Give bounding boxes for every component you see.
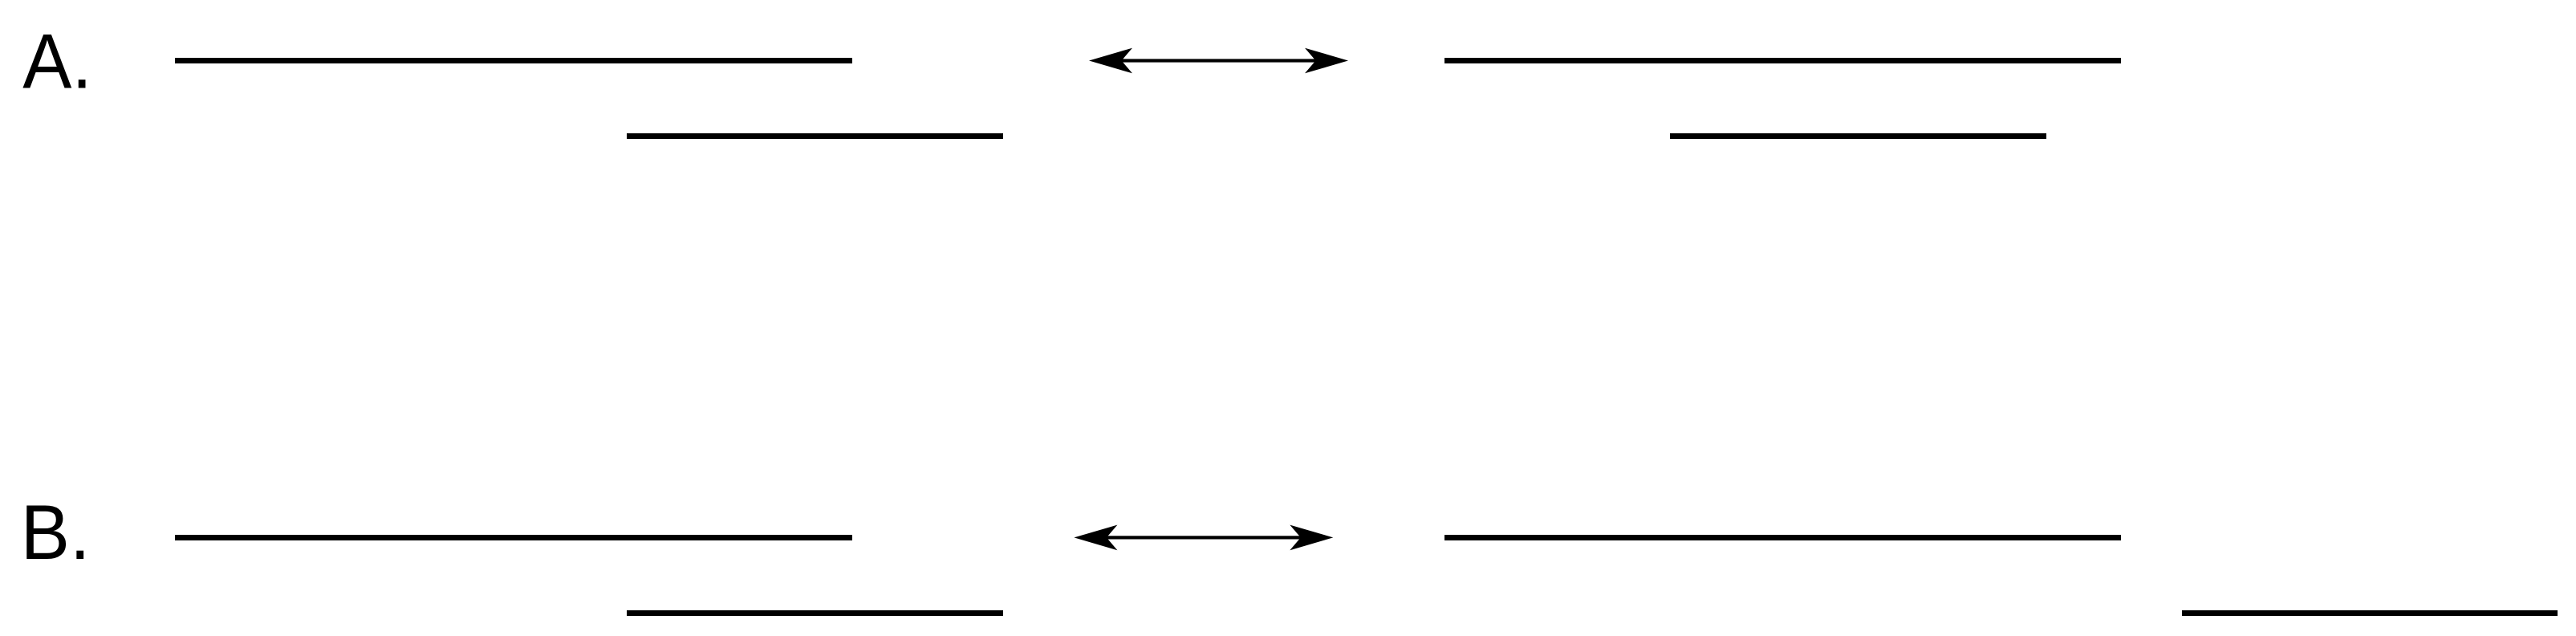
strand B-right top: [1444, 535, 2121, 540]
svg-text:A.: A.: [22, 18, 92, 104]
double-headed arrow A: [1089, 48, 1348, 74]
svg-text:B.: B.: [21, 489, 91, 576]
strand B-right bottom: [2182, 610, 2558, 616]
strand A-right bottom: [1670, 133, 2046, 139]
strand B-left bottom: [627, 610, 1003, 616]
strand A-right top: [1444, 58, 2121, 63]
strand B-left top: [175, 535, 852, 540]
strand A-left top: [175, 58, 852, 63]
double-headed arrow B: [1074, 525, 1333, 551]
strand A-left bottom: [627, 133, 1003, 139]
